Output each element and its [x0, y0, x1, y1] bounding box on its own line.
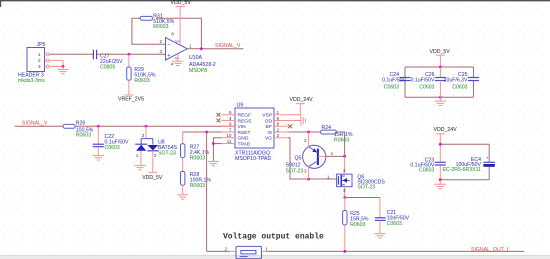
svg-text:Q5: Q5 — [295, 155, 302, 161]
ground at C21 — [374, 234, 385, 238]
wire JP5 pin1 to C27 — [49, 53, 93, 55]
capacitor C24 — [382, 72, 410, 90]
ground at U8 — [135, 165, 146, 169]
svg-text:SIGNAL_V: SIGNAL_V — [22, 121, 48, 127]
svg-text:0.1uF/50V: 0.1uF/50V — [382, 77, 406, 83]
wire VSP to VDD_24V — [288, 104, 301, 115]
svg-text:EC-2R5-6R3X11: EC-2R5-6R3X11 — [442, 167, 481, 173]
wire R31 right to output node — [156, 18, 201, 49]
note Voltage output enable — [223, 233, 324, 242]
net label SIGNAL_V (left input) — [22, 121, 48, 127]
svg-text:MSOP10-TPAD: MSOP10-TPAD — [235, 156, 271, 162]
svg-text:mkds3-3ms: mkds3-3ms — [18, 78, 45, 84]
Q5 emitter lead — [308, 132, 310, 147]
power port VDD_24V at cap bank — [434, 127, 458, 144]
Q5 collector lead — [308, 166, 310, 179]
power port VREF_2V5 — [118, 95, 144, 103]
power port VDD_5V at U8 (down) — [142, 172, 163, 181]
svg-text:MSOP8: MSOP8 — [189, 68, 207, 74]
svg-text:10: 10 — [226, 133, 232, 138]
svg-text:R0603: R0603 — [334, 138, 349, 144]
svg-text:VSP: VSP — [262, 113, 272, 119]
resistor R27 — [181, 132, 210, 161]
svg-text:R0603: R0603 — [190, 183, 205, 189]
svg-text:5: 5 — [229, 110, 232, 115]
svg-text:C0603: C0603 — [419, 168, 434, 174]
svg-text:REGF: REGF — [238, 113, 252, 119]
svg-text:ADA4528-2: ADA4528-2 — [189, 62, 216, 68]
wire JP5 pin2/pin3 to ground — [49, 60, 63, 66]
bottom window strip — [0, 255, 550, 259]
wire RSET line — [183, 131, 235, 133]
junction RSET-jumper — [205, 131, 208, 134]
junction C22 tap — [97, 125, 100, 128]
svg-text:EF: EF — [266, 124, 272, 130]
svg-text:2: 2 — [38, 58, 41, 63]
power port VDD_5V at op-amp — [171, 0, 192, 44]
pin stub REGS — [222, 120, 236, 122]
electrolytic capacitor EC4 — [442, 156, 494, 173]
svg-text:VDD_24V: VDD_24V — [290, 97, 314, 103]
wire VIN line — [75, 125, 235, 127]
svg-text:VDD_5V: VDD_5V — [430, 49, 451, 55]
wire drain node to C21 — [345, 197, 380, 199]
pin stub IS — [274, 131, 288, 133]
wire output rail SIGNAL_OUT_I — [268, 250, 524, 252]
ground at op-amp — [172, 61, 183, 65]
svg-text:3: 3 — [38, 64, 41, 69]
svg-text:SOT-23: SOT-23 — [286, 168, 304, 174]
junction VDD_24V rail bottom — [439, 178, 442, 181]
svg-text:3: 3 — [277, 133, 280, 138]
jumper SJ1 — [224, 246, 268, 258]
svg-text:VDD_5V: VDD_5V — [171, 0, 192, 6]
pin stub OD — [274, 120, 301, 122]
capacitor C27 — [93, 50, 123, 71]
power port VDD_24V at U9 — [290, 97, 314, 103]
wire RSET to enable jumper — [207, 132, 230, 251]
junction VDD_24V rail top — [439, 143, 442, 146]
svg-text:1: 1 — [331, 151, 334, 156]
svg-text:C0805: C0805 — [100, 65, 115, 71]
resistor R28 — [181, 171, 212, 194]
ground at C22 — [93, 156, 104, 160]
no-connect X pin 8 — [288, 124, 292, 128]
IC U9 XTR111 — [226, 103, 279, 162]
svg-text:C0603: C0603 — [105, 145, 120, 151]
svg-text:SOT-23: SOT-23 — [357, 184, 375, 190]
svg-text:OD: OD — [265, 118, 273, 124]
net label SIGNAL_OUT_I — [471, 247, 508, 253]
capacitor C25 — [444, 72, 479, 90]
svg-text:1: 1 — [38, 52, 41, 57]
ground at U9 — [208, 161, 219, 165]
wire GND/TPAD bracket — [213, 138, 221, 161]
no-connect X pin 4 — [217, 119, 221, 123]
svg-text:GND: GND — [238, 136, 249, 142]
svg-text:U10A: U10A — [189, 55, 203, 61]
wire R31 left to op-amp pin2 — [132, 18, 166, 44]
svg-text:C0603: C0603 — [419, 85, 434, 91]
svg-text:10uF/6.3V: 10uF/6.3V — [444, 77, 468, 83]
junction U8 tap — [145, 125, 148, 128]
pin stub VG — [274, 137, 288, 139]
svg-text:R0603: R0603 — [350, 222, 365, 228]
resistor R26 — [63, 120, 94, 138]
resistor R25 — [343, 198, 369, 252]
ground at VDD_24V bank — [434, 180, 446, 189]
svg-text:VG: VG — [265, 136, 272, 142]
wire VDD_24V cap bank rails — [440, 144, 489, 179]
svg-text:+: + — [167, 53, 170, 59]
pin stub EF — [274, 125, 288, 127]
svg-text:1: 1 — [327, 174, 330, 179]
wire VG to Q6 gate — [288, 138, 337, 179]
power port VDD_5V at cap bank — [430, 49, 451, 67]
U8 cathode lead to VDD_5V — [152, 151, 154, 173]
connector JP5 — [18, 42, 49, 84]
svg-text:VDD_24V: VDD_24V — [434, 127, 458, 133]
pin stub TPAD — [222, 143, 236, 145]
svg-text:R0603: R0603 — [76, 133, 91, 139]
net label SIGNAL_V (op-amp output) — [215, 43, 241, 49]
ground at JP5 — [58, 66, 69, 73]
svg-text:R0603: R0603 — [190, 155, 205, 161]
pin stub GND — [222, 137, 236, 139]
junction GND/TPAD — [212, 142, 215, 145]
junction Q5 collector node — [307, 178, 310, 181]
svg-text:VDD_5V: VDD_5V — [142, 175, 163, 181]
pin stub REGF — [222, 114, 236, 116]
transistor Q5 — [286, 138, 334, 175]
svg-text:3: 3 — [160, 49, 163, 54]
svg-text:REGS: REGS — [238, 118, 253, 124]
svg-text:3: 3 — [304, 168, 307, 173]
op-amp V- pin wire — [177, 54, 179, 61]
capacitor C21 — [375, 198, 410, 234]
wire IS to R24 — [288, 131, 321, 133]
svg-text:6: 6 — [229, 122, 232, 127]
svg-text:0.1uF/50V: 0.1uF/50V — [411, 77, 435, 83]
U8 anode lead to ground — [140, 151, 142, 165]
svg-text:2: 2 — [160, 39, 163, 44]
no-connect X pin 5 — [217, 113, 221, 117]
resistor R31 — [140, 13, 175, 30]
svg-text:−: − — [167, 43, 170, 49]
wire op-amp output — [187, 48, 243, 50]
svg-text:4: 4 — [171, 62, 174, 67]
svg-text:3: 3 — [142, 133, 145, 138]
svg-text:8: 8 — [277, 122, 280, 127]
op-amp U10A — [160, 31, 216, 74]
capacitor C23 — [410, 157, 445, 173]
svg-text:1: 1 — [189, 43, 192, 48]
resistor R29 — [127, 54, 156, 95]
junction R29 tap — [127, 53, 130, 56]
capacitor C22 — [93, 126, 129, 155]
wire SIGNAL_V to R26 — [15, 125, 64, 127]
pin stub VIN — [222, 125, 236, 127]
svg-text:R24: R24 — [322, 125, 332, 131]
capacitor C26 — [411, 67, 446, 97]
svg-text:R26: R26 — [76, 120, 86, 126]
ground at R28 — [177, 195, 188, 199]
rotated ground at OD — [301, 115, 306, 126]
svg-text:RSET: RSET — [238, 130, 251, 136]
resistor R24 — [321, 125, 353, 143]
svg-text:3: 3 — [343, 188, 346, 193]
MOSFET Q6 Si2309CDS — [327, 156, 385, 197]
svg-text:1: 1 — [277, 110, 280, 115]
wire C27 to op-amp pin3 — [97, 53, 166, 55]
svg-text:VIN: VIN — [238, 124, 247, 130]
svg-text:1: 1 — [265, 246, 268, 251]
junction JP5 ground node — [62, 65, 65, 68]
wire VDD_5V cap bank rails — [405, 67, 474, 97]
pin stub RSET — [222, 131, 236, 133]
pin stub VSP — [274, 114, 288, 116]
diode U8 BAT54S — [135, 126, 177, 158]
junction Q6 source node — [343, 155, 346, 158]
svg-text:TPAD: TPAD — [238, 141, 251, 147]
svg-text:2: 2 — [343, 168, 346, 173]
ground at VDD_5V bank — [434, 97, 446, 105]
svg-text:2: 2 — [224, 246, 227, 251]
svg-text:+: + — [486, 156, 489, 161]
svg-text:8: 8 — [171, 31, 174, 36]
svg-text:IS: IS — [267, 130, 272, 136]
svg-text:SOT-23: SOT-23 — [158, 150, 176, 156]
svg-text:C0603: C0603 — [387, 221, 402, 227]
wire R24 to Q6 source node — [337, 132, 345, 156]
junction Q6 drain node — [343, 196, 346, 199]
svg-text:C0603: C0603 — [452, 85, 467, 91]
svg-text:V+: V+ — [175, 39, 181, 44]
junction IS node — [307, 131, 310, 134]
svg-text:1: 1 — [136, 153, 139, 158]
svg-text:C0603: C0603 — [384, 85, 399, 91]
junction VDD_5V rail bottom — [439, 96, 442, 99]
svg-text:SIGNAL_V: SIGNAL_V — [215, 43, 241, 49]
svg-text:Voltage output enable: Voltage output enable — [223, 233, 324, 242]
wire Q5 base to Q6 source — [326, 155, 345, 157]
svg-text:R0603: R0603 — [153, 24, 168, 30]
svg-text:SIGNAL_OUT_I: SIGNAL_OUT_I — [471, 247, 508, 253]
junction VDD_5V rail top — [439, 66, 442, 69]
wire R27 to R28 — [182, 158, 184, 172]
svg-text:2: 2 — [304, 138, 307, 143]
svg-text:VREF_2V5: VREF_2V5 — [118, 97, 144, 103]
sheet top border — [0, 0, 550, 7]
junction R25 at output rail — [343, 250, 346, 253]
svg-text:2: 2 — [154, 153, 157, 158]
junction output node — [200, 47, 203, 50]
svg-text:R0603: R0603 — [134, 78, 149, 84]
